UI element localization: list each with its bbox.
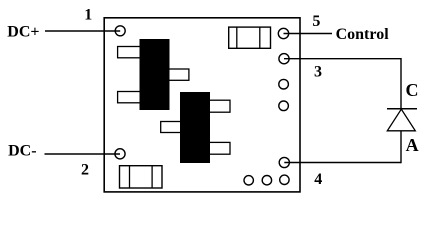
diode D1 triangle xyxy=(387,109,415,131)
wire pin 5 to Control xyxy=(284,33,333,35)
wire DC- to pin 2 xyxy=(45,153,121,155)
transistor Q2 lead left xyxy=(161,122,181,133)
resistor R1 left end-cap line xyxy=(236,27,238,48)
transistor Q2 lead right-top xyxy=(209,100,230,112)
transistor Q2 body xyxy=(180,92,210,163)
transistor Q1 body xyxy=(140,39,170,110)
svg-text:5: 5 xyxy=(312,13,320,30)
transistor Q2 lead right-bottom xyxy=(209,142,230,154)
svg-text:A: A xyxy=(406,135,419,155)
resistor R1 right end-cap line xyxy=(259,27,261,48)
pin 2 pad circle xyxy=(115,149,125,159)
wire pin 3 to diode cathode xyxy=(284,58,401,60)
transistor Q1 lead left-top xyxy=(118,47,141,58)
PCB module outline xyxy=(104,18,300,192)
svg-text:2: 2 xyxy=(81,162,89,179)
pin 5 pad circle xyxy=(278,28,288,38)
svg-text:DC-: DC- xyxy=(8,143,36,160)
svg-text:1: 1 xyxy=(84,7,92,24)
svg-text:4: 4 xyxy=(314,171,322,188)
resistor R1 (top) body xyxy=(229,27,271,48)
pin 3 pad circle xyxy=(279,54,289,64)
diode D1 cathode bar xyxy=(387,108,417,110)
resistor R2 (bottom) body xyxy=(120,166,163,188)
pin 1 pad circle xyxy=(115,26,125,36)
transistor Q1 lead left-bottom xyxy=(118,92,141,103)
resistor R2 left end-cap line xyxy=(129,166,131,188)
unconnected hole lower xyxy=(279,101,289,111)
unconnected hole upper xyxy=(279,79,289,89)
svg-text:Control: Control xyxy=(336,26,390,43)
bottom hole 3 xyxy=(280,175,289,184)
wire DC+ to pin 1 xyxy=(45,30,120,32)
resistor R2 right end-cap line xyxy=(151,166,153,188)
pin 4 pad circle xyxy=(279,157,289,167)
svg-text:C: C xyxy=(406,80,419,100)
wire diode cathode vertical xyxy=(400,58,402,109)
svg-text:DC+: DC+ xyxy=(7,24,39,41)
wire pin 4 to diode anode xyxy=(284,162,401,164)
wire diode anode vertical xyxy=(400,131,402,163)
bottom hole 1 xyxy=(244,176,253,185)
svg-text:3: 3 xyxy=(314,63,322,80)
transistor Q1 lead right xyxy=(168,69,189,80)
bottom hole 2 xyxy=(262,176,271,185)
